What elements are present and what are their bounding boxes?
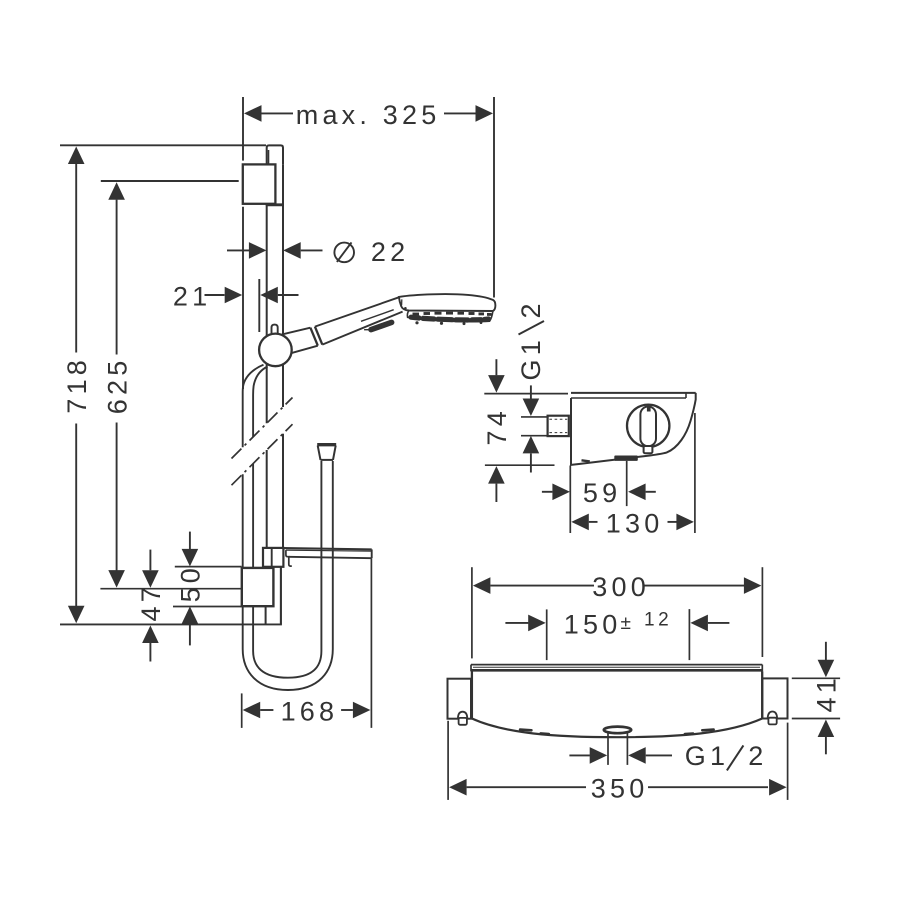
- svg-text:47: 47: [136, 583, 166, 621]
- svg-text:G1: G1: [685, 741, 729, 771]
- svg-text:350: 350: [591, 774, 649, 804]
- svg-text:59: 59: [583, 478, 621, 508]
- svg-text:22: 22: [371, 237, 409, 267]
- svg-text:G1: G1: [516, 336, 546, 380]
- svg-text:2: 2: [516, 299, 546, 318]
- svg-text:50: 50: [176, 564, 206, 602]
- svg-text:625: 625: [102, 357, 132, 415]
- svg-text:718: 718: [62, 356, 92, 414]
- svg-text:12: 12: [644, 610, 672, 631]
- svg-text:±: ±: [621, 613, 631, 634]
- svg-text:168: 168: [281, 696, 339, 726]
- svg-text:2: 2: [748, 741, 767, 771]
- svg-text:150: 150: [564, 609, 622, 639]
- svg-text:max. 325: max. 325: [296, 100, 441, 130]
- svg-text:300: 300: [592, 572, 650, 602]
- svg-text:130: 130: [606, 508, 664, 538]
- svg-text:21: 21: [173, 281, 211, 311]
- svg-text:74: 74: [482, 407, 512, 445]
- svg-text:41: 41: [812, 674, 842, 712]
